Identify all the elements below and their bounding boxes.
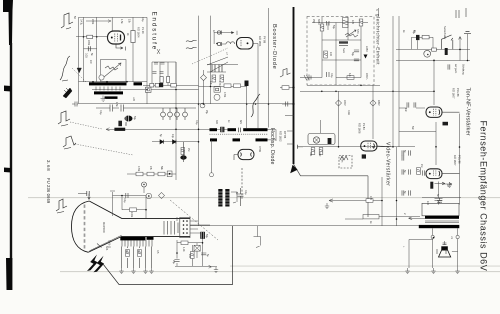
- cathode resistor V6: [430, 182, 433, 189]
- dark blob on bus: [159, 83, 163, 87]
- speaker wires: [409, 228, 458, 268]
- wire y131.5 ton: [399, 131, 436, 133]
- capacitor C19: [448, 64, 450, 69]
- transformer bar T1a: [89, 82, 127, 85]
- capacitor C7 circle: [217, 42, 221, 46]
- booster area wires: [207, 8, 269, 128]
- tube V6 pentode out: [426, 169, 460, 179]
- resistor R19: [359, 19, 363, 26]
- svg-text:RÖ 1604: RÖ 1604: [137, 27, 141, 38]
- inductor L1: [226, 42, 235, 44]
- pot zigzag: [345, 30, 358, 37]
- elcap dark top: [416, 35, 420, 40]
- svg-text:RÖ 1607: RÖ 1607: [452, 88, 456, 99]
- wire x436 between tubes: [435, 122, 437, 165]
- resistor R12: [126, 250, 130, 257]
- svg-text:FU 236 0669: FU 236 0669: [46, 178, 51, 204]
- svg-text:Fernseh-Empfänger Chassis D6: Fernseh-Empfänger Chassis D6V: [479, 121, 489, 272]
- wire stub x378.5 top: [378, 8, 380, 17]
- stub y115.5: [285, 115, 294, 117]
- wire y37 top right: [412, 37, 434, 49]
- wire inner verticals: [322, 17, 361, 85]
- arrow speaker feed: [409, 217, 426, 220]
- svg-text:0,47µ: 0,47µ: [80, 19, 83, 26]
- resistor R21: [347, 76, 354, 80]
- svg-text:3.68: 3.68: [46, 160, 51, 171]
- resistor R25: [311, 148, 315, 155]
- wire inner mid: [322, 39, 361, 41]
- choke comp: [339, 43, 348, 46]
- wire vertical x176: [175, 62, 177, 180]
- meter circle crt: [146, 193, 152, 199]
- stub y104: [282, 103, 294, 105]
- wire vertical x96.7: [96, 17, 98, 81]
- svg-text:R82: R82: [318, 152, 321, 157]
- resistor R5: [181, 148, 185, 155]
- switch S1: [441, 35, 452, 50]
- wire inner bottom2: [336, 60, 361, 78]
- mains terminal: [300, 75, 312, 81]
- svg-text:1M: 1M: [137, 250, 140, 253]
- tube V4 video pentode: [361, 141, 393, 151]
- wire x246.7: [246, 86, 248, 128]
- dark cap: [443, 122, 449, 126]
- svg-text:1,5k: 1,5k: [120, 19, 123, 24]
- capacitor C12: [201, 253, 206, 255]
- trimmer resistor hang 3: [175, 108, 180, 120]
- hanging branch cluster: [152, 62, 176, 86]
- svg-text:RÖ 1652: RÖ 1652: [279, 131, 283, 142]
- electrolytic C3: [125, 116, 133, 122]
- resistor R9: [212, 75, 216, 82]
- meter circle: [214, 94, 220, 100]
- wire y108 ton: [399, 107, 425, 109]
- svg-text:1,5k: 1,5k: [115, 102, 118, 107]
- HV caps pair: [239, 128, 241, 133]
- wire V6 to transformer: [438, 182, 440, 199]
- wire x382: [381, 177, 383, 226]
- svg-text:0,1µ: 0,1µ: [99, 110, 102, 115]
- transformer core bar2: [419, 225, 460, 228]
- svg-text:E250: E250: [365, 46, 368, 52]
- capacitor C6 circle: [217, 31, 221, 35]
- leader dotted a: [72, 68, 86, 82]
- wire y200.5: [329, 199, 382, 202]
- resistor R11: [282, 86, 289, 90]
- svg-text:1,2k: 1,2k: [182, 247, 185, 252]
- waveform glyph heavy: [280, 69, 291, 78]
- svg-text:220V~: 220V~: [365, 73, 368, 81]
- wire bus y104: [79, 103, 294, 105]
- CRT upper circuit wires: [110, 191, 146, 218]
- CRT base pins: [183, 220, 188, 234]
- wire x459.5: [459, 114, 461, 205]
- waveform test glyph 2: [60, 56, 70, 81]
- tube V5 triode: [426, 107, 460, 117]
- transformer bar T1d: [105, 96, 118, 99]
- svg-text:10p: 10p: [171, 134, 174, 139]
- wire cap row: [84, 48, 97, 50]
- top right: bus y49.4: [396, 48, 470, 50]
- junction dot b: [96, 36, 98, 38]
- svg-text:PL 36: PL 36: [141, 27, 145, 34]
- resistor R18: [343, 18, 349, 28]
- wire inner low: [322, 59, 361, 61]
- svg-text:185V: 185V: [377, 100, 380, 106]
- svg-text:0,1µ: 0,1µ: [330, 73, 333, 78]
- resistor R20: [324, 51, 328, 58]
- ground g8: [431, 268, 435, 274]
- wire vertical x214: [213, 33, 215, 45]
- scan fold gray line 3: [60, 270, 500, 273]
- HV transformer bars row1: [210, 128, 268, 131]
- top right caps: [456, 8, 466, 18]
- ground g5: [214, 267, 218, 273]
- svg-text:25µ: 25µ: [205, 110, 208, 115]
- svg-text:50µ: 50µ: [133, 116, 136, 121]
- resistor R10: [220, 75, 224, 82]
- resistor RV1: [131, 31, 135, 43]
- capacitor C17: [327, 72, 330, 77]
- transformer hatch: [96, 87, 120, 91]
- trimmer resistor hang 4: [183, 108, 188, 120]
- dark junction blob: [245, 81, 249, 87]
- right twin bus verticals: [339, 16, 400, 226]
- wire x434 drop: [433, 59, 435, 105]
- svg-text:Booster-Diode: Booster-Diode: [271, 24, 277, 70]
- wire bus y225.7: [190, 225, 420, 227]
- svg-text:B250: B250: [317, 19, 320, 25]
- wire bus y89.5: [92, 89, 199, 91]
- tube V1 lead down: [116, 44, 126, 51]
- terminal circle L: [431, 235, 434, 238]
- resistor R22: [422, 35, 429, 39]
- wire vertical x338.5: [338, 91, 340, 147]
- arrow +4: [444, 183, 452, 186]
- wire inner bottom: [312, 45, 322, 78]
- svg-text:50µ: 50µ: [351, 52, 354, 57]
- leader dotted b: [70, 122, 102, 129]
- ground top mid: [101, 96, 107, 102]
- svg-text:100: 100: [188, 254, 191, 259]
- svg-text:50n: 50n: [411, 126, 414, 131]
- rectifier unit dashed box: [307, 17, 374, 86]
- svg-text:0,1µ: 0,1µ: [141, 17, 144, 22]
- trimmer resistor hang 1: [161, 108, 166, 120]
- CRT base circuit cluster: [175, 217, 217, 268]
- svg-text:auf gedr.: auf gedr.: [454, 64, 457, 74]
- lamp circle: [99, 75, 104, 80]
- wire bus y81.7: [79, 81, 148, 83]
- transformer core bar1: [425, 216, 459, 219]
- waveform test glyph 3: [58, 111, 70, 126]
- yoke bar 2: [147, 237, 154, 240]
- resistor R24: [432, 48, 437, 51]
- svg-text:0,9A: 0,9A: [347, 110, 350, 115]
- diode D2: [160, 140, 163, 144]
- resistor R14: [130, 208, 137, 212]
- diode D3: [173, 140, 176, 144]
- CRT anode tip circuit: [78, 191, 90, 200]
- ground g4: [149, 268, 153, 274]
- box fuse: [214, 87, 220, 92]
- svg-text:0,1µ: 0,1µ: [244, 190, 247, 195]
- resistor R8: [158, 172, 165, 176]
- lamp circle meter: [424, 50, 431, 57]
- wire y72: [207, 71, 226, 73]
- bus y85.3: [307, 84, 380, 86]
- wire tube grid feed: [76, 36, 108, 38]
- diamond node B: [159, 193, 165, 199]
- ground g7: [405, 268, 409, 274]
- branch cap row1 a: [154, 62, 158, 64]
- wire vertical x78.5: [78, 17, 80, 103]
- schematic lower boundary: [103, 226, 233, 285]
- terminal tick left: [298, 145, 304, 149]
- svg-text:Netz: Netz: [342, 48, 345, 54]
- junction dots bus: [321, 90, 323, 92]
- svg-text:25µ: 25µ: [172, 260, 175, 265]
- wire vertical x210.5: [210, 16, 212, 104]
- capacitor C1: [88, 46, 90, 51]
- ton comps upper: [402, 155, 404, 160]
- wire vertical x198.5: [198, 16, 200, 226]
- wire bus y85.7: [143, 84, 199, 86]
- svg-text:DY 86: DY 86: [283, 131, 287, 139]
- svg-text:PY 88: PY 88: [263, 36, 267, 44]
- box with dot: [167, 171, 172, 177]
- bus resistors: [150, 83, 154, 87]
- waveform test glyph 4: [63, 136, 76, 149]
- wire vertical x467.5: [467, 34, 469, 61]
- wire vertical x258: [253, 44, 258, 129]
- svg-text:350: 350: [124, 122, 127, 127]
- lightning bolt EHT: [87, 255, 98, 272]
- svg-text:Schaltung: Schaltung: [462, 64, 465, 75]
- waveform arrow blob: [63, 88, 72, 98]
- leader dotted c: [75, 144, 133, 155]
- dashed wire x242: [241, 168, 243, 200]
- diamond node C: [336, 100, 342, 106]
- yoke drop wires: [122, 247, 152, 269]
- wire dashed arrow: [86, 20, 111, 23]
- svg-text:125: 125: [351, 20, 354, 25]
- bracket glyph a: [231, 192, 237, 203]
- ton caps cluster: [407, 102, 409, 107]
- wire vertical x147: [146, 17, 148, 103]
- branch resistor r1: [160, 77, 163, 83]
- resistor R17: [320, 24, 324, 31]
- striped comp: [328, 138, 332, 144]
- resistor R4 striped: [118, 121, 122, 127]
- scan fold gray line 1: [28, 196, 500, 199]
- resistor R1: [87, 35, 93, 38]
- svg-text:220V: 220V: [343, 100, 346, 106]
- wire x320.5: [320, 120, 322, 133]
- elcap pair: [212, 65, 222, 73]
- svg-text:50µ: 50µ: [205, 234, 208, 239]
- box linearity control: [101, 60, 127, 82]
- svg-text:1M: 1M: [420, 164, 423, 167]
- bus y91.3: [300, 90, 434, 92]
- capacitor C9 on fold: [238, 188, 244, 206]
- diamond node A: [201, 75, 207, 81]
- caps pairs right column: [402, 150, 404, 155]
- resistor R7: [147, 172, 154, 176]
- terminal circle: [210, 173, 214, 177]
- CRT grid strokes: [164, 221, 178, 235]
- svg-text:0,25: 0,25: [85, 53, 88, 58]
- wire y219: [345, 217, 420, 219]
- svg-text:RÖ 1651: RÖ 1651: [258, 36, 262, 47]
- svg-text:S: S: [375, 9, 379, 11]
- ground g1: [119, 268, 123, 274]
- HV dotted line: [210, 133, 268, 135]
- wire x203.5: [203, 70, 205, 104]
- EHT tick: [97, 244, 102, 248]
- ground g9: [455, 268, 459, 274]
- svg-text:1Vss: 1Vss: [341, 157, 344, 163]
- junction circle: [200, 103, 205, 108]
- heavy line arrowhead: [290, 165, 297, 173]
- transformer bar T1b: [134, 82, 143, 85]
- main wire grid left block: [76, 16, 294, 226]
- svg-text:6kV: 6kV: [239, 120, 242, 125]
- transformer bar T1c: [94, 91, 123, 94]
- bus y129.3 with arrow: [106, 128, 232, 131]
- svg-text:Endstufe: Endstufe: [151, 12, 158, 52]
- resistor R28: [363, 215, 379, 219]
- transformer wire top: [422, 197, 461, 199]
- svg-text:100: 100: [329, 52, 332, 57]
- component row y174 wire: [127, 173, 176, 175]
- branch cap row2 b: [160, 72, 164, 74]
- wire stub x183: [183, 142, 185, 162]
- yoke comb block: [218, 189, 230, 207]
- wire vertical x460: [459, 37, 462, 61]
- wire vertical x393: [392, 16, 394, 147]
- svg-text:4,7k: 4,7k: [218, 81, 221, 86]
- svg-text:470k: 470k: [223, 92, 226, 98]
- HV elcap dark: [220, 127, 224, 132]
- wire y108 dashed tail: [147, 107, 196, 109]
- capacitor C21 on top: [437, 198, 442, 204]
- box relay X: [194, 245, 200, 251]
- diamond node D: [370, 100, 376, 106]
- svg-text:PCL 86: PCL 86: [456, 88, 460, 97]
- wire inner top: [312, 22, 368, 24]
- branch cap row1 b: [161, 62, 165, 64]
- resistor R13: [138, 250, 142, 257]
- svg-text:50µ: 50µ: [332, 25, 335, 30]
- CRT picture tube: [72, 201, 191, 252]
- component boxes row y85.7: [224, 84, 231, 88]
- svg-text:PCL 86: PCL 86: [458, 155, 462, 164]
- wire x257.5 stub: [257, 226, 259, 237]
- svg-text:10n: 10n: [404, 108, 407, 113]
- svg-text:RÖ 1606: RÖ 1606: [358, 123, 362, 134]
- wire vertical x399: [398, 16, 400, 147]
- output transformer box: [422, 203, 459, 216]
- resistor R27: [366, 199, 373, 203]
- svg-text:Video-Verstärker: Video-Verstärker: [385, 142, 391, 186]
- terminal circle R: [456, 235, 459, 238]
- resistor R15: [181, 241, 188, 245]
- CRT screen dashed: [84, 205, 86, 250]
- capacitor C10: [126, 193, 128, 198]
- speaker LS: [439, 243, 451, 257]
- HV transformer bars row2: [210, 138, 268, 141]
- diode row wire: [152, 141, 199, 143]
- yoke comb ticks: [122, 240, 152, 247]
- svg-text:R81: R81: [309, 152, 312, 157]
- wire y86.4: [199, 85, 247, 87]
- tube V1 output pentode: [108, 31, 125, 44]
- svg-text:RÖ 1607: RÖ 1607: [453, 155, 457, 166]
- svg-text:L20: L20: [132, 97, 135, 102]
- arrowhead booster: [231, 31, 234, 34]
- capacitor C14: [327, 21, 330, 26]
- terminal T: [464, 32, 471, 34]
- tube V3 HV rectifier: [234, 149, 254, 160]
- branch resistor r2: [167, 77, 170, 83]
- stub y87.5: [280, 87, 294, 89]
- junction dot a: [83, 36, 85, 38]
- wire x211.5 mid: [211, 140, 213, 173]
- svg-text:300: 300: [215, 120, 218, 125]
- svg-text:50µ: 50µ: [412, 30, 415, 35]
- svg-text:Rö1500: Rö1500: [102, 222, 106, 233]
- CRT base box: [180, 217, 190, 237]
- wire tube feed: [222, 43, 227, 45]
- wire x368 drop: [367, 176, 369, 217]
- resistor R16: [191, 252, 195, 259]
- ferrite bead on bus: [114, 128, 125, 131]
- svg-text:Hochsp. Diode: Hochsp. Diode: [269, 128, 275, 165]
- svg-text:PL 83: PL 83: [362, 123, 366, 130]
- svg-text:220k: 220k: [91, 19, 94, 25]
- electrolytic C11 striped: [200, 232, 205, 239]
- fuse box left: [146, 87, 152, 92]
- capacitor C5 left: [72, 102, 78, 107]
- heavy feed line: [293, 7, 295, 164]
- CRT funnel inner line: [90, 235, 122, 251]
- lamp box video: [308, 134, 335, 145]
- ground g3: [143, 268, 147, 274]
- wire vertical x83.5: [83, 17, 85, 81]
- capacitor C20: [435, 199, 443, 205]
- capacitor C13: [174, 260, 179, 262]
- svg-text:2M: 2M: [187, 148, 190, 151]
- funnel wiring: [207, 57, 228, 72]
- rectifier box contents: [312, 17, 368, 85]
- scan fold gray line 2: [230, 265, 500, 268]
- measure squiggle: [340, 156, 348, 160]
- svg-text:NTC: NTC: [356, 29, 359, 34]
- transformer thin lines: [425, 221, 459, 223]
- waveform S glyph booster: [251, 94, 260, 117]
- wire top arrow: [214, 31, 237, 35]
- bus y60.5: [396, 60, 470, 62]
- svg-text:470: 470: [369, 196, 372, 201]
- leader dotted booster: [192, 48, 228, 64]
- wire vertical x268.5: [268, 8, 270, 128]
- sideways squiggle a: [186, 40, 197, 41]
- bracket glyph b: [254, 237, 261, 248]
- svg-text:250: 250: [312, 19, 315, 24]
- capacitor C2 pair: [96, 105, 147, 112]
- pot arrow inside box: [104, 63, 121, 77]
